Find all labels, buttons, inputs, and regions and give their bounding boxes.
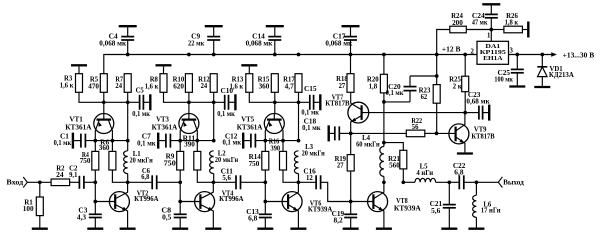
capacitor C4: [121, 37, 134, 40]
resistor R20: [380, 74, 387, 93]
svg-text:КТ996А: КТ996А: [219, 195, 244, 203]
wire C20 top wire: [410, 75, 437, 77]
svg-text:750: 750: [164, 160, 177, 168]
resistor R3: [76, 74, 83, 93]
wire C6 to A2: [157, 181, 181, 183]
node node B1: [126, 180, 130, 184]
wire R26 to stub: [522, 29, 527, 31]
C17 bottom stem: [350, 40, 352, 55]
ground bar above C14: [266, 25, 284, 27]
node node B2: [212, 180, 216, 184]
node input/R1: [38, 180, 42, 184]
output arrow +13...30V: [551, 52, 557, 56]
wire R8 bottom: [164, 92, 189, 102]
wire gnd to C12: [244, 140, 251, 142]
wire VD1 lead: [541, 55, 543, 67]
svg-text:6,8: 6,8: [454, 169, 464, 177]
node rail-R18/C17: [349, 53, 353, 57]
ground above R3: [78, 64, 80, 66]
ground right of C10: [234, 94, 236, 110]
capacitor C14: [268, 37, 281, 40]
transistor VT5 KT361A (PNP): [264, 113, 284, 141]
svg-text:1,8: 1,8: [369, 82, 378, 90]
svg-text:12: 12: [306, 174, 313, 182]
svg-text:1,6 к: 1,6 к: [60, 81, 74, 89]
svg-text:Выход: Выход: [503, 179, 524, 187]
wire L6 to ground: [475, 217, 477, 227]
svg-text:КТ939А: КТ939А: [394, 204, 422, 212]
capacitor C13: [259, 214, 272, 217]
node bias/VT1 base: [102, 100, 106, 104]
resistor R25: [462, 76, 469, 92]
capacitor C19: [344, 214, 357, 217]
wire R5 bottom: [103, 92, 105, 102]
ground left of C18: [328, 125, 330, 141]
svg-text:+12 В: +12 В: [442, 46, 461, 54]
resistor R4: [92, 151, 99, 170]
svg-text:2 к: 2 к: [453, 82, 463, 90]
wire L4 top lead: [383, 143, 385, 147]
svg-text:24: 24: [56, 171, 64, 179]
C14 top stem: [274, 26, 276, 36]
svg-text:8,2: 8,2: [334, 216, 344, 224]
wire C23 to stub: [483, 112, 489, 114]
ground under C13: [257, 228, 273, 230]
svg-text:62: 62: [421, 93, 428, 101]
svg-text:360: 360: [259, 82, 270, 90]
transistor VT8 KT939A (NPN): [368, 182, 388, 227]
ground under VT4 emitter: [205, 228, 221, 230]
wire C3 to ground: [94, 218, 96, 228]
wire L1 top lead: [127, 141, 129, 151]
wire C8 stem: [179, 202, 181, 215]
transistor VT4 KT996A (NPN): [195, 182, 215, 227]
wire R1 top lead: [39, 182, 41, 197]
node L4 top node: [382, 141, 386, 145]
svg-text:0,1 мк: 0,1 мк: [386, 89, 404, 97]
wire bias line stage1: [104, 101, 140, 103]
svg-text:27: 27: [339, 82, 346, 90]
svg-text:0,068 мк: 0,068 мк: [246, 39, 274, 47]
capacitor C18: [335, 126, 340, 140]
node rail-R15/C14: [273, 53, 277, 57]
svg-text:6,8: 6,8: [248, 214, 258, 222]
node bias2/R12: [212, 100, 216, 104]
wire rail up to R24: [437, 30, 450, 55]
ground right of C15: [319, 94, 321, 110]
wire R11 top: [196, 141, 198, 152]
resistor R2: [51, 179, 70, 186]
resistor R22: [406, 130, 425, 137]
svg-text:1: 1: [487, 32, 491, 40]
node rail-R10: [187, 53, 191, 57]
svg-text:560: 560: [389, 162, 400, 170]
inductor L4: [380, 146, 384, 176]
inductor L5: [415, 178, 436, 182]
capacitor C17: [344, 37, 357, 40]
wire VT3 base lead: [188, 102, 190, 113]
capacitor C6: [152, 175, 157, 189]
wire R23 bottom lead: [436, 103, 438, 133]
wire C18 to VT7 emitter: [339, 132, 350, 134]
wire R12 bottom: [213, 92, 215, 102]
node rail-R25: [463, 53, 467, 57]
C4 bottom stem: [127, 40, 129, 55]
wire R17 node down: [298, 102, 300, 140]
wire DA1 pin1 lead: [490, 30, 492, 42]
svg-text:Вход: Вход: [6, 178, 23, 186]
wire input to R2: [27, 181, 51, 183]
wire to L5: [403, 181, 415, 183]
wire C16 to VT8 base: [321, 182, 373, 201]
node bias3/R17: [297, 100, 301, 104]
wire R14 bottom: [264, 170, 266, 182]
ground bar above R3: [71, 64, 87, 66]
wire R4 bottom to node A1: [94, 170, 96, 182]
transistor VT1 KT361A (PNP): [94, 113, 114, 141]
resistor R26: [504, 26, 523, 33]
resistor R8: [160, 74, 167, 93]
capacitor C21: [443, 205, 456, 208]
inductor L6: [473, 195, 477, 217]
ground under C3: [87, 228, 103, 230]
transistor VT2 KT996A (NPN): [109, 182, 129, 227]
C9 top stem: [213, 26, 215, 36]
ground right of C5: [149, 94, 151, 110]
svg-text:4 нГн: 4 нГн: [416, 169, 433, 177]
wire C10 to stub: [229, 101, 235, 103]
ground left of C1: [72, 133, 74, 149]
svg-text:22 мк: 22 мк: [188, 39, 205, 47]
svg-text:47 мк: 47 мк: [472, 19, 488, 27]
svg-text:620: 620: [173, 82, 184, 90]
wire L4 node to R21: [384, 143, 403, 151]
node R21 bottom node: [401, 180, 405, 184]
svg-text:5,6: 5,6: [222, 174, 231, 182]
resistor R1: [36, 197, 43, 216]
wire C22 to output: [464, 181, 499, 183]
wire A3 down: [264, 182, 266, 201]
wire C11 to A3: [241, 181, 266, 183]
ground under C21: [441, 228, 457, 230]
node L2 top: [212, 139, 216, 143]
input terminal arrow: [23, 177, 27, 188]
node VT1 collector/R6: [111, 139, 115, 143]
wire R3 top: [78, 66, 80, 73]
wire C25 stem: [516, 55, 518, 70]
wire R15 bottom: [274, 92, 276, 102]
resistor R12: [210, 74, 217, 93]
resistor R9: [177, 151, 184, 170]
wire R25 bottom lead: [464, 92, 466, 113]
node VT8 collector/L4 node: [382, 180, 386, 184]
wire C15 to stub: [314, 101, 320, 103]
wire to VT9 base: [437, 132, 456, 134]
node bias2/VT3 base: [187, 100, 191, 104]
inductor L2: [210, 151, 214, 174]
svg-text:60 мкГн: 60 мкГн: [356, 140, 380, 148]
wire C25 to ground: [516, 73, 518, 86]
wire C7 to emitter line2: [170, 140, 213, 142]
wire R25 top lead: [464, 55, 466, 77]
wire to VT6 base: [265, 201, 288, 203]
ground under C8: [172, 228, 188, 230]
capacitor C3: [89, 214, 102, 217]
resistor R11: [194, 151, 201, 170]
wire L4 bottom lead: [383, 176, 385, 182]
svg-text:C5: C5: [136, 87, 145, 95]
node rail-R17: [297, 53, 301, 57]
wire R6 bottom to node B1: [112, 170, 127, 182]
wire VT7 base line: [362, 112, 466, 114]
svg-text:6,8: 6,8: [141, 173, 149, 181]
wire bias line stage2: [189, 101, 225, 103]
svg-text:2: 2: [471, 47, 475, 55]
capacitor C11: [236, 175, 241, 189]
svg-text:КД213А: КД213А: [549, 71, 575, 79]
wire R17 bottom: [298, 92, 300, 102]
capacitor C23: [479, 106, 483, 120]
svg-text:0,5: 0,5: [162, 214, 172, 222]
wire emitter line to R22: [351, 132, 407, 134]
wire R19 top: [350, 133, 352, 154]
capacitor C7: [166, 134, 171, 148]
wire A1 down: [94, 182, 96, 201]
resistor R21: [400, 150, 407, 169]
C4 top stem: [127, 26, 129, 36]
ground under VT9 emitter: [457, 152, 473, 154]
svg-text:100 мк: 100 мк: [494, 75, 513, 83]
wire R22 to R23 node: [425, 132, 437, 134]
wire R9 top: [179, 141, 181, 152]
resistor R10: [185, 74, 192, 93]
svg-text:390: 390: [184, 141, 195, 149]
wire L5 to C21: [436, 181, 460, 183]
wire A2 down: [179, 182, 181, 201]
svg-text:750: 750: [80, 157, 91, 165]
wire rail to R23: [436, 55, 438, 77]
wire L3 bottom lead: [298, 174, 300, 183]
wire C21 to ground: [448, 208, 450, 228]
svg-text:VT5: VT5: [241, 116, 254, 124]
capacitor C15: [310, 95, 314, 110]
ground under C25: [509, 85, 525, 87]
ground bar above R8: [156, 64, 172, 66]
node VT3 collector/R11: [195, 139, 199, 143]
node VT3 emitter/R9: [178, 139, 182, 143]
wire C8 to ground: [179, 218, 181, 228]
capacitor C2: [79, 176, 84, 189]
resistor R24: [450, 26, 467, 33]
node rail-R7/C4: [126, 53, 130, 57]
wire C24 bottom stem: [490, 18, 492, 30]
wire B2 to C11: [214, 181, 236, 183]
wire to VT2 base: [95, 201, 115, 203]
capacitor C10: [225, 95, 229, 110]
node rail-R24/R23: [435, 53, 439, 57]
node C25 node: [515, 53, 519, 57]
wire R18 to VT7 collector: [350, 92, 352, 103]
svg-text:360: 360: [99, 144, 110, 152]
svg-text:+13...30 В: +13...30 В: [563, 51, 595, 59]
wire L2 bottom lead: [213, 174, 215, 183]
svg-text:20 мкГн: 20 мкГн: [130, 156, 153, 164]
svg-text:VT3: VT3: [156, 116, 169, 124]
node node A1: [93, 180, 97, 184]
resistor R17: [295, 74, 302, 93]
wire R10 bottom: [188, 92, 190, 102]
wire R14 top: [264, 141, 266, 152]
svg-text:0,1 мк: 0,1 мк: [301, 109, 319, 117]
svg-text:0,068 мк: 0,068 мк: [99, 39, 127, 47]
svg-text:КТ939А: КТ939А: [308, 206, 333, 214]
wire C2 to node A1: [84, 181, 95, 183]
wire to VT4 base: [180, 201, 200, 203]
wire C20 top stem: [409, 76, 411, 87]
wire R7 bottom: [127, 92, 129, 102]
wire B3 to C16: [298, 181, 316, 183]
transistor VT9 KT817B (NPN): [449, 113, 469, 153]
wire VD1 to ground: [541, 77, 543, 86]
ground left of C7: [157, 133, 159, 149]
diode VD1 КД213А: [537, 67, 547, 77]
svg-text:0,68 мк: 0,68 мк: [466, 98, 490, 106]
resistor R18: [347, 74, 354, 93]
svg-text:4,3: 4,3: [77, 214, 87, 222]
C17 top stem: [350, 26, 352, 36]
node R22/R23 node: [435, 132, 439, 136]
wire B1 to C6: [128, 181, 153, 183]
wire R9 bottom: [179, 170, 181, 182]
capacitor C1: [81, 134, 86, 148]
ground under C19: [343, 228, 359, 230]
ground bar above C4: [119, 25, 137, 27]
svg-text:200: 200: [452, 19, 463, 27]
ground under VT8 emitter: [376, 228, 392, 230]
wire R18 lead: [350, 55, 352, 74]
svg-text:470: 470: [88, 82, 99, 90]
svg-text:24: 24: [115, 82, 122, 90]
node L6 node: [475, 180, 479, 184]
C14 bottom stem: [274, 40, 276, 55]
node node A3: [263, 180, 267, 184]
wire C19 to ground: [350, 218, 352, 228]
svg-text:VT1: VT1: [69, 116, 83, 124]
wire R20 lead: [383, 55, 385, 75]
node rail-R12/C9: [212, 53, 216, 57]
node VT5 collector/R16: [281, 139, 285, 143]
wire to R26: [491, 29, 504, 31]
wire C19 stem: [350, 202, 352, 215]
resistor R13: [246, 74, 253, 93]
node R23 top node: [435, 74, 439, 78]
wire R6 top: [111, 141, 113, 152]
node VT4 base node: [178, 200, 182, 204]
wire C24 top stem: [490, 4, 492, 14]
wire C12 to emitter line3: [255, 140, 298, 142]
node R20/C20 node: [382, 100, 386, 104]
wire gnd to C18: [330, 132, 335, 134]
wire R3 bottom to bias node: [79, 92, 104, 102]
svg-text:КТ361А: КТ361А: [65, 123, 92, 131]
wire L6 stem: [475, 182, 477, 195]
svg-text:4,7: 4,7: [285, 82, 295, 90]
resistor R23: [433, 85, 440, 104]
ground under L6: [468, 228, 484, 230]
resistor R14: [262, 151, 269, 170]
node R24/C24/pin1 node: [489, 28, 493, 32]
svg-text:56: 56: [412, 123, 419, 131]
node bias/R7: [126, 100, 130, 104]
transistor VT3 KT361A (PNP): [179, 113, 199, 141]
wire R20 node to L4: [383, 102, 385, 143]
capacitor C8: [174, 214, 187, 217]
wire R1 bottom lead: [39, 216, 41, 228]
svg-text:ЕН1А: ЕН1А: [483, 55, 503, 62]
wire to C23: [465, 112, 479, 114]
wire R7 node down to collector line: [127, 102, 129, 140]
capacitor C20: [404, 87, 417, 91]
resistor R5: [100, 74, 107, 93]
svg-text:5,6: 5,6: [431, 207, 441, 215]
svg-text:20 мкГн: 20 мкГн: [302, 150, 325, 158]
inductor L3: [294, 151, 298, 174]
svg-text:КТ817В: КТ817В: [471, 132, 494, 140]
svg-text:24: 24: [201, 82, 208, 90]
wire C13 stem: [264, 202, 266, 215]
ground bar above C24: [482, 3, 500, 5]
capacitor C22: [459, 175, 464, 189]
wire C3 stem: [94, 202, 96, 215]
capacitor C16: [316, 175, 321, 189]
node VT6 base node: [263, 200, 267, 204]
node VT7 emitter node: [349, 132, 353, 136]
IC DA1 КР1195ЕН1А: [477, 41, 509, 64]
node VD1 node: [540, 53, 544, 57]
wire C5 to ground stub: [143, 101, 149, 103]
wire gnd to C1: [74, 140, 81, 142]
svg-text:КТ361А: КТ361А: [237, 123, 263, 131]
wire R12 node down: [213, 102, 215, 140]
ground under VD1: [534, 86, 550, 88]
node C21 node: [447, 180, 451, 184]
capacitor C12: [251, 134, 256, 148]
wire C21 stem: [448, 182, 450, 204]
svg-text:КТ817В: КТ817В: [325, 100, 350, 108]
svg-text:0,1 мк: 0,1 мк: [54, 139, 72, 147]
inductor L1: [124, 151, 128, 174]
node VT8 base node: [349, 200, 353, 204]
wire C1 to emitter line: [85, 140, 127, 142]
wire R13 bottom: [249, 92, 274, 102]
node node B3: [297, 180, 301, 184]
svg-text:9,1: 9,1: [69, 171, 78, 179]
wire R20 bottom: [383, 93, 385, 102]
resistor R15: [271, 74, 278, 93]
svg-text:КТ361А: КТ361А: [152, 123, 178, 131]
ground under VT6 emitter: [290, 228, 306, 230]
svg-text:0,1 мк: 0,1 мк: [137, 140, 156, 148]
wire R24 to C24 node: [466, 29, 491, 31]
svg-text:0,1 мк: 0,1 мк: [223, 139, 242, 147]
svg-text:0,1 мк: 0,1 мк: [217, 110, 235, 118]
wire C20 bottom stem: [409, 91, 411, 102]
resistor R6: [109, 151, 116, 170]
svg-text:390: 390: [271, 145, 281, 153]
svg-text:3: 3: [510, 46, 514, 54]
wire R4 top: [94, 141, 96, 152]
node VT1 emitter/R4: [93, 139, 97, 143]
